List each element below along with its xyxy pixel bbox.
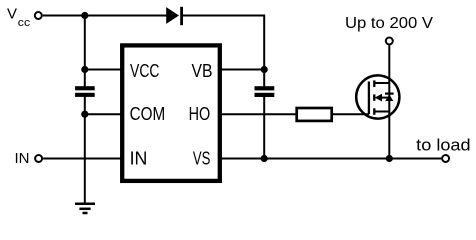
terminal Up to 200 V	[345, 15, 433, 45]
svg-text:V: V	[7, 6, 17, 23]
wire VCC pin	[85, 69, 122, 71]
svg-text:to load: to load	[416, 135, 470, 154]
svg-text:IN: IN	[130, 149, 148, 169]
terminal to load	[416, 135, 470, 162]
node junction VB	[261, 66, 268, 73]
wire VB pin	[220, 69, 264, 71]
wire drain/source vertical	[388, 46, 390, 159]
wire Vcc to diode anode	[43, 15, 167, 17]
node junction VCC pin	[81, 66, 88, 73]
wire IN pin	[43, 158, 122, 160]
wire C2 bottom to VS line	[263, 97, 265, 159]
svg-text:cc: cc	[18, 17, 31, 29]
diode D1 (bootstrap diode)	[166, 7, 183, 25]
capacitor C2 (bootstrap)	[255, 86, 275, 97]
wire VS line to load	[220, 158, 441, 160]
terminal IN	[15, 150, 43, 167]
node junction on top wire	[81, 12, 88, 19]
svg-text:VS: VS	[193, 149, 211, 169]
wire left vertical lower (C1 to ground)	[84, 97, 86, 204]
op-amp U1 gate driver IC body	[122, 45, 220, 181]
wire left vertical upper (Vcc to C1)	[84, 16, 86, 88]
node junction COM pin	[81, 111, 88, 118]
svg-text:VCC: VCC	[130, 61, 160, 81]
transistor Q1 MOSFET	[356, 75, 399, 118]
capacitor C1 (VCC decoupling)	[75, 86, 95, 97]
svg-text:Up to 200 V: Up to 200 V	[345, 15, 433, 32]
wire right vertical drop (VB branch)	[263, 15, 265, 88]
svg-text:IN: IN	[15, 150, 30, 167]
wire diode cathode to top-right corner	[183, 15, 264, 17]
resistor R1 (gate resistor)	[297, 108, 332, 121]
wire HO pin to resistor	[220, 113, 296, 115]
wire COM pin	[85, 113, 122, 115]
node junction source/VS	[386, 155, 393, 162]
svg-text:HO: HO	[189, 104, 211, 124]
wire resistor to gate	[333, 113, 369, 115]
ground	[75, 204, 95, 213]
svg-text:VB: VB	[192, 61, 213, 81]
svg-text:COM: COM	[130, 104, 166, 124]
terminal Vcc	[7, 6, 42, 29]
node junction VS left	[261, 155, 268, 162]
